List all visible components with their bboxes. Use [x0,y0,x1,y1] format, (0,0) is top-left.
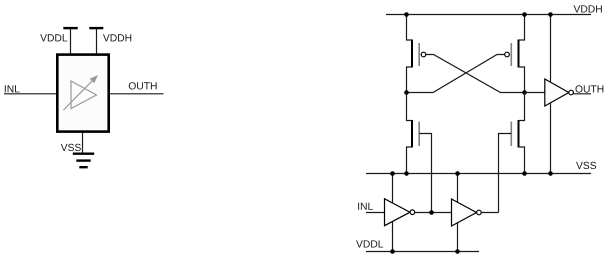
inverter X2 supply pins (VSS top / VDDL bottom) [457,174,459,252]
wire X1 output to X2 input [415,212,452,214]
junction X1 output node [429,210,434,215]
label VDDH (rail) [574,5,602,12]
inverter X2 output bubble [477,210,482,215]
label VDDH (left block) [103,34,131,41]
inverter X3 [545,79,569,106]
junction VDDH / X3 supply [548,12,553,17]
node INL (right) [358,203,373,210]
junction VSS / X2 supply [455,171,460,176]
junction VSS / M3 source [404,171,409,176]
label VSS (rail) [576,162,596,169]
transistor M3 channel [411,120,413,148]
junction VDDH / M1 source [404,12,409,17]
node OUTH (left) [129,82,157,89]
transistor M2 gate plate [510,43,512,66]
junction VSS / M4 source [522,171,527,176]
supply pin VDDL of U1 [70,28,72,54]
inverter X1 supply pins (VSS top / VDDL bottom) [392,174,394,252]
label VDDL (left block) [40,34,67,41]
junction VSS / X1 supply [390,171,395,176]
wire M4 gate to inverter X2 output [499,134,512,213]
wire M3 gate to inverter X1 output [419,134,431,213]
VSS rail [366,173,591,175]
junction node B [522,90,527,95]
transistor M1 channel [411,40,413,68]
junction VDDL / X1 supply [390,249,395,254]
transistor M3 gate plate [418,122,420,147]
wire INL (left block input) [4,93,58,95]
node OUTH (right) [575,85,603,92]
junction VSS / X3 supply [548,171,553,176]
label VSS (left block) [61,144,81,151]
transistor M2 gate bubble [505,52,510,57]
transistor M1 gate plate [418,43,420,66]
wire VSS stub of U1 [82,132,84,154]
ground [73,154,94,168]
inverter X3 output bubble [569,90,574,95]
transistor M2 drain wire [519,67,525,93]
transistor M1 source wire [407,15,412,41]
wire M2 gate to node A (cross-couple) [407,55,505,93]
transistor M4 drain wire [519,93,525,121]
wire node B to inverter X3 input [525,92,546,94]
wire INL (right schematic input) [366,212,385,214]
inverter X2 [452,199,477,226]
transistor M3 source wire [407,147,412,174]
transistor M4 source wire [519,147,525,174]
wire OUTH (right) [573,93,591,95]
junction VDDL / X2 supply [455,249,460,254]
wire X2 output to M4 gate [481,212,498,214]
arrow of level-shift symbol [64,81,93,110]
junction VDDH / M2 source [522,12,527,17]
inverter X1 [385,199,411,226]
supply bar VDDL [63,27,77,29]
transistor M2 source wire [519,15,525,41]
node INL (left) [5,85,20,92]
label VDDL (rail) [356,240,383,247]
transistor M1 gate bubble [421,52,426,57]
amplifier symbol inside U1 [71,81,97,109]
junction node A [404,90,409,95]
supply bar VDDH [89,27,103,29]
transistor M4 channel [518,120,520,148]
transistor M2 channel [518,40,520,68]
VDDL rail [366,251,479,253]
supply pin VDDH of U1 [96,28,98,54]
VDDH rail [386,14,591,16]
inverter X1 output bubble [410,210,415,215]
transistor M1 drain wire [407,67,412,93]
transistor M3 drain wire [407,93,412,121]
wire M1 gate to node B (cross-couple) [426,55,525,93]
wire OUTH (left block output) [109,93,164,95]
level-shifter block U1 [57,55,108,132]
inverter X3 supply pins (VDDH top / VSS bottom) [550,15,552,174]
transistor M4 gate plate [510,122,512,147]
